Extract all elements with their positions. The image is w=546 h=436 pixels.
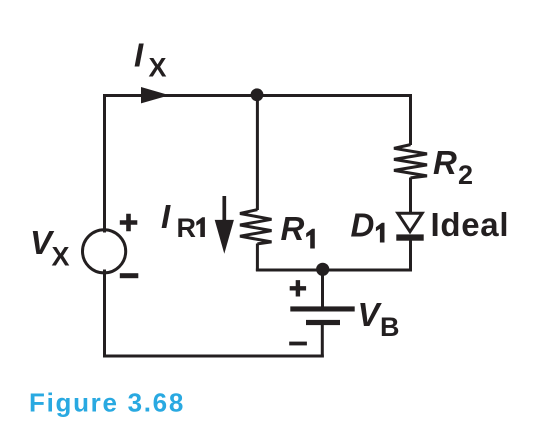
minus sign of battery VB — [289, 342, 307, 346]
svg-text:Ideal: Ideal — [431, 206, 510, 243]
wire R1 branch lower — [256, 244, 259, 272]
svg-text:V: V — [358, 296, 383, 333]
plus sign of source VX — [120, 214, 138, 232]
wire top horizontal — [103, 94, 412, 97]
svg-text:D: D — [351, 207, 375, 244]
wire bottom horizontal — [103, 355, 324, 358]
wire R1 branch upper — [256, 94, 259, 210]
wire battery top stub — [321, 269, 324, 307]
svg-text:R: R — [177, 213, 197, 243]
svg-text:2: 2 — [458, 160, 473, 190]
svg-text:Figure 3.68: Figure 3.68 — [29, 388, 185, 418]
svg-text:X: X — [52, 242, 70, 272]
svg-text:R: R — [433, 144, 457, 181]
voltage source VX circle — [83, 230, 126, 273]
battery VB bottom plate — [306, 320, 340, 325]
diode D1 cathode bar — [396, 234, 423, 240]
current arrow IR1 shaft — [222, 196, 226, 222]
junction dot bottom node — [316, 263, 329, 276]
svg-text:I: I — [161, 198, 171, 235]
wire right vertical (top corner to R2) — [409, 94, 412, 145]
battery VB top plate — [290, 306, 354, 311]
junction dot top node — [251, 88, 264, 101]
wire diode to bottom-mid horizontal — [409, 240, 412, 272]
current arrow IR1 head — [215, 220, 234, 254]
wire R2 to diode — [409, 178, 412, 213]
wire battery bottom stub — [321, 325, 324, 358]
diode D1 triangle — [398, 213, 422, 232]
minus sign of source VX — [120, 273, 139, 278]
wire left vertical top (source to top-left corner) — [103, 94, 106, 233]
resistor R1 zigzag — [240, 210, 272, 244]
wire left vertical bottom (source to bottom wire) — [103, 270, 106, 358]
svg-text:B: B — [380, 312, 400, 342]
resistor R2 zigzag — [394, 145, 427, 178]
svg-text:X: X — [149, 53, 167, 83]
svg-text:I: I — [134, 37, 144, 74]
current arrow IX on top wire — [141, 87, 169, 103]
wire bottom-mid horizontal — [256, 269, 412, 272]
plus sign of battery VB — [290, 280, 306, 296]
svg-text:R: R — [281, 210, 305, 247]
